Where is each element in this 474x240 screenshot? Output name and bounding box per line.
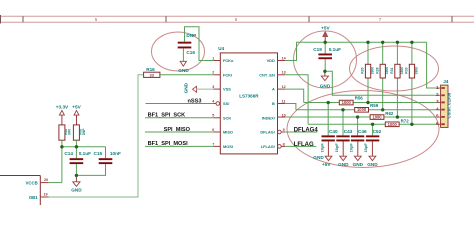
svg-text:R31: R31	[390, 67, 394, 73]
svg-text:3300: 3300	[400, 67, 404, 75]
svg-text:13: 13	[282, 71, 286, 75]
U4 pin8 inversion bubble	[278, 145, 282, 149]
svg-text:+5V: +5V	[321, 25, 330, 30]
svg-text:1000: 1000	[388, 122, 398, 127]
wire row6 to R72 and J4 pin6	[308, 123, 437, 125]
annotation ellipse around C16	[152, 32, 205, 71]
J4 pin stubs	[437, 88, 440, 124]
svg-text:DNP: DNP	[82, 128, 86, 136]
wire LFLAG pin8 stub	[285, 145, 316, 147]
wire SPI_MISO to pin6 MISO	[145, 131, 213, 133]
U4 pin numbers	[212, 56, 286, 146]
svg-text:R26: R26	[361, 67, 365, 73]
annotation ellipse around filter caps	[287, 91, 439, 168]
svg-text:LS7366R: LS7366R	[239, 93, 259, 98]
capacitor C14	[64, 151, 91, 176]
svg-text:Conn_01x06: Conn_01x06	[447, 92, 452, 118]
svg-text:GND: GND	[71, 187, 82, 192]
annotation ellipse around pullup resistors	[350, 46, 439, 91]
svg-text:3300: 3300	[385, 67, 389, 75]
svg-text:LFLAG: LFLAG	[294, 142, 314, 148]
wire INDEX pin10 row5 to R62 and J4 pin5	[285, 116, 437, 118]
wire row4 to R59 and J4 pin4	[296, 109, 437, 111]
svg-text:0.1uF: 0.1uF	[329, 47, 341, 52]
wire nSS3 to pin4 SS/	[146, 103, 214, 105]
svg-text:C19: C19	[313, 47, 322, 52]
svg-text:+5V: +5V	[322, 162, 331, 167]
svg-text:10: 10	[282, 114, 286, 118]
U4 left pin stubs	[213, 61, 220, 147]
svg-text:MOSI: MOSI	[223, 144, 233, 149]
svg-text:GND: GND	[313, 155, 324, 160]
svg-text:10pF: 10pF	[349, 143, 354, 153]
capacitor C40	[319, 103, 338, 157]
wire C16 top to pin1 FCKo	[185, 27, 214, 61]
resistor R59	[355, 103, 379, 112]
svg-text:VCCB: VCCB	[26, 181, 38, 186]
svg-text:0.1uF: 0.1uF	[79, 151, 91, 156]
svg-text:C46: C46	[358, 129, 367, 134]
ground symbol below C43	[338, 156, 349, 167]
svg-text:C15: C15	[94, 151, 103, 156]
svg-text:VSS: VSS	[223, 87, 231, 92]
svg-text:FCKI: FCKI	[223, 72, 232, 77]
resistor R68	[73, 125, 85, 140]
capacitor C43	[334, 110, 353, 156]
svg-text:C52: C52	[373, 129, 382, 134]
resistor R66	[59, 125, 71, 140]
resistor R72	[385, 118, 409, 126]
svg-text:GND: GND	[320, 84, 331, 89]
svg-text:6: 6	[436, 121, 439, 126]
wire pin3 VSS to GND arrow	[197, 88, 214, 90]
wire A pin12 down to row3	[285, 89, 303, 102]
IC U? bottom-left body edge	[0, 176, 40, 206]
capacitor C52	[363, 124, 381, 156]
svg-text:+5V: +5V	[72, 105, 81, 110]
svg-text:3300: 3300	[370, 67, 374, 75]
svg-text:1: 1	[436, 85, 439, 90]
svg-text:R33: R33	[405, 67, 409, 73]
svg-text:OB1: OB1	[29, 195, 38, 200]
U4 right pin stubs	[278, 61, 286, 147]
svg-text:A: A	[272, 87, 275, 92]
resistor R16	[144, 67, 160, 77]
svg-text:4: 4	[436, 106, 439, 111]
wire BF1_SPI_SCK to pin5 SCK	[145, 117, 213, 119]
svg-text:R56: R56	[355, 96, 364, 101]
capacitor C19	[313, 42, 341, 71]
wire VCCB pin20 to +3.3V column	[49, 182, 62, 184]
svg-text:C14: C14	[64, 151, 73, 156]
power symbol +5V left	[72, 105, 81, 125]
power symbol below C40	[313, 155, 332, 167]
svg-text:8: 8	[283, 142, 285, 146]
wire BF1_SPI_MOSI to pin7 MOSI	[145, 145, 213, 147]
ground symbol below C14	[71, 175, 82, 192]
svg-text:10pF: 10pF	[334, 143, 339, 153]
svg-text:19: 19	[44, 192, 48, 196]
ground symbol below C16	[178, 61, 189, 73]
svg-text:VDD: VDD	[267, 58, 275, 63]
svg-text:R28: R28	[375, 67, 379, 73]
resistor R62	[370, 111, 394, 120]
wire CNT_EN pin13 down to row6	[285, 75, 308, 125]
svg-text:1000: 1000	[357, 107, 367, 112]
wire R66 R68 to rail	[62, 140, 106, 182]
power symbol GND at pin3 VSS	[184, 82, 197, 93]
wire OB1 pin19 to R16	[49, 75, 144, 197]
sheet border top band	[0, 16, 474, 22]
svg-text:1: 1	[212, 56, 214, 60]
wire DFLAG pin9 stub	[285, 131, 317, 133]
resistor R28 pullup	[375, 42, 389, 110]
svg-text:2: 2	[212, 71, 214, 75]
svg-text:C40: C40	[329, 129, 338, 134]
svg-text:SCK: SCK	[223, 115, 231, 120]
resistor R31 pullup	[390, 42, 404, 117]
svg-text:DNP: DNP	[186, 33, 196, 38]
wire B pin11 down to row4	[285, 104, 296, 110]
power symbol +5V top	[321, 25, 330, 42]
svg-text:33: 33	[149, 73, 154, 78]
svg-text:SS/: SS/	[223, 101, 230, 106]
svg-text:10nF: 10nF	[110, 151, 121, 156]
U4 pin9 inversion bubble	[278, 130, 282, 134]
svg-text:6: 6	[212, 128, 214, 132]
svg-text:GND: GND	[184, 82, 189, 93]
svg-text:C16: C16	[186, 50, 195, 55]
svg-text:9: 9	[283, 128, 285, 132]
svg-text:GND: GND	[178, 68, 189, 73]
U4 pin names	[223, 58, 276, 149]
ground symbol below C19	[320, 71, 331, 88]
svg-text:11: 11	[282, 99, 286, 103]
svg-text:R72: R72	[401, 118, 410, 123]
svg-text:C43: C43	[344, 129, 353, 134]
svg-text:+3.3V: +3.3V	[56, 105, 69, 110]
svg-text:2: 2	[436, 92, 439, 97]
svg-text:LFLAG/: LFLAG/	[261, 144, 276, 149]
svg-text:3: 3	[212, 85, 214, 89]
svg-text:DFLAG4: DFLAG4	[294, 127, 319, 133]
svg-text:CNT_EN: CNT_EN	[259, 72, 275, 77]
svg-text:MISO: MISO	[223, 130, 233, 135]
svg-text:10pF: 10pF	[319, 143, 324, 153]
U4 pin4 inversion bubble	[216, 102, 220, 106]
power symbol +3.3V	[56, 105, 69, 125]
J4 pin numbers	[436, 85, 439, 126]
svg-text:R16: R16	[146, 67, 155, 72]
bottom-left IC pin stubs	[40, 183, 48, 197]
connector J4 body	[441, 79, 452, 127]
svg-text:B: B	[272, 101, 275, 106]
svg-text:7: 7	[212, 142, 214, 146]
svg-text:GND: GND	[338, 162, 349, 167]
svg-text:U4: U4	[218, 46, 224, 51]
ground symbol below C52	[367, 156, 378, 167]
svg-text:20: 20	[44, 178, 48, 182]
svg-text:0R0: 0R0	[67, 129, 71, 135]
svg-text:1000: 1000	[342, 100, 352, 105]
wire GND node to J4 pin2	[325, 71, 437, 95]
svg-text:FCKo: FCKo	[223, 58, 234, 63]
resistor R56	[339, 96, 363, 105]
svg-text:J4: J4	[443, 79, 449, 84]
wire row3 to R56 and J4 pin3	[304, 102, 438, 104]
wire VDD pin14 to +5V rail	[285, 42, 426, 60]
svg-text:12: 12	[282, 85, 286, 89]
capacitor C16	[178, 33, 197, 55]
svg-text:R59: R59	[370, 103, 379, 108]
svg-text:5: 5	[212, 114, 214, 118]
capacitor C15	[76, 151, 121, 176]
resistor R33 pullup	[405, 42, 419, 124]
resistor R26 pullup	[361, 42, 375, 102]
capacitor C46	[349, 117, 367, 156]
annotation ellipse around C19	[294, 31, 357, 88]
svg-text:10pF: 10pF	[363, 143, 368, 153]
J4 pin pads	[441, 87, 445, 125]
svg-text:3: 3	[436, 99, 439, 104]
wire R16 to pin2 FCKI	[160, 74, 214, 76]
IC U4 LS7366R body	[218, 46, 277, 154]
svg-text:R62: R62	[385, 111, 394, 116]
svg-text:INDEX/: INDEX/	[262, 115, 276, 120]
wire rail end down to J4 pin1	[427, 42, 438, 88]
svg-text:1000: 1000	[372, 115, 382, 120]
svg-text:3300: 3300	[414, 67, 418, 75]
wire C16 bottom to GND	[182, 48, 184, 61]
ground symbol below C46	[353, 156, 364, 167]
svg-text:5: 5	[436, 114, 439, 119]
svg-text:DFLAG/: DFLAG/	[260, 130, 275, 135]
svg-text:GND: GND	[367, 162, 378, 167]
svg-text:GND: GND	[353, 162, 364, 167]
